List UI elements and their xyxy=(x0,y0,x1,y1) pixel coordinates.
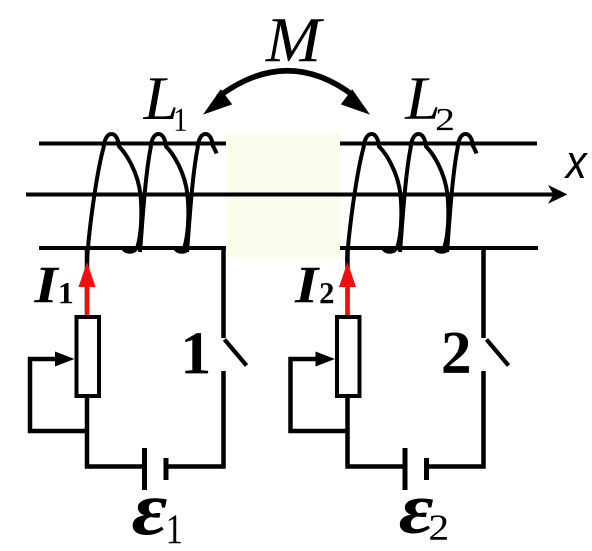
label EMF2 subscript 2 xyxy=(430,515,447,539)
mutual inductance left arrowhead xyxy=(203,89,232,114)
wire: battery 2 right lead xyxy=(429,464,486,469)
inductor L1 top bump 3 xyxy=(198,134,214,147)
inductor L2 top bump 1 xyxy=(364,134,380,147)
inductor L1 front stroke 2 xyxy=(140,146,151,252)
inductor L2 top bump 3 xyxy=(458,134,474,147)
label switch 2 xyxy=(443,333,468,373)
inductor L2 top bump 3 tail xyxy=(473,145,477,154)
mutual inductance arc xyxy=(218,71,354,97)
battery 2 long plate xyxy=(403,448,408,490)
x-axis line xyxy=(26,193,560,197)
label L2 subscript 2 xyxy=(437,109,453,130)
inductor L1 bottom bump 2 xyxy=(173,248,191,254)
label L1 letter L xyxy=(143,78,176,119)
rheostat R1 tap left wire xyxy=(30,357,87,431)
wire: rheostat R1 to battery xyxy=(85,396,90,469)
inductor L1 back stroke 2 xyxy=(166,146,189,250)
wire: battery 1 right lead xyxy=(169,464,226,469)
inductor L2 front stroke 1 xyxy=(347,146,364,261)
switch 1 blade xyxy=(225,340,247,366)
gap region between coils (pale yellow) xyxy=(226,133,340,258)
label I2 subscript 2 xyxy=(320,283,333,303)
inductor L2 bottom bump 1 xyxy=(381,248,399,254)
core rod top line xyxy=(39,142,537,146)
core rod bottom line xyxy=(39,246,538,250)
label I1 letter I xyxy=(34,268,59,303)
inductor L1 front stroke 1 xyxy=(87,146,104,261)
rheostat R1 wiper arrow shaft xyxy=(28,357,58,362)
rheostat R1 body xyxy=(77,317,100,396)
wire: switch 1 lower branch xyxy=(221,371,226,469)
wire: battery 2 left lead xyxy=(346,464,403,469)
label EMF1 epsilon xyxy=(133,498,167,535)
inductor L2 front stroke 2 xyxy=(400,146,411,252)
label x axis xyxy=(564,153,588,178)
wire: switch 1 upper branch xyxy=(221,246,226,338)
inductor L1 top bump 2 xyxy=(151,134,167,147)
wire: switch 2 lower branch xyxy=(481,371,486,469)
label I2 letter I xyxy=(294,268,319,303)
inductor L1 front stroke 3 xyxy=(187,146,198,252)
inductor L1 top bump 3 tail xyxy=(213,145,217,154)
label EMF2 epsilon xyxy=(400,499,433,534)
current arrow I1 (red) xyxy=(85,285,89,316)
rheostat R2 wiper arrow shaft xyxy=(289,357,319,362)
inductor L2 back stroke 2 xyxy=(426,146,449,250)
x-axis arrowhead xyxy=(548,185,568,204)
battery 1 long plate xyxy=(142,448,147,490)
wire: coil L2 bottom to rheostat xyxy=(345,248,350,318)
inductor L2 back stroke 1 xyxy=(379,146,402,250)
rheostat R2 body xyxy=(337,317,360,396)
label L1 subscript 1 xyxy=(176,109,186,131)
inductor L2 top bump 2 xyxy=(411,134,427,147)
switch 2 blade xyxy=(487,340,509,366)
label L2 letter L xyxy=(404,78,437,118)
label EMF1 subscript 1 xyxy=(169,515,181,543)
wire: rheostat R2 to battery xyxy=(345,396,350,469)
current arrow I2 (red) xyxy=(345,285,349,316)
inductor L2 front stroke 3 xyxy=(447,146,458,252)
rheostat R2 wiper arrowhead xyxy=(316,352,336,367)
wire: switch 2 upper branch xyxy=(481,246,486,338)
inductor L1 top bump 1 xyxy=(104,134,120,147)
rheostat R1 wiper arrowhead xyxy=(55,352,75,367)
label switch 1 xyxy=(185,333,208,373)
mutual inductance right arrowhead xyxy=(341,89,370,114)
label I1 subscript 1 xyxy=(60,283,72,303)
inductor L1 bottom bump 1 xyxy=(121,248,139,254)
label M (mutual inductance) xyxy=(265,19,324,61)
wire: battery 1 left lead xyxy=(85,464,142,469)
battery 2 short plate xyxy=(424,458,429,480)
inductor L2 bottom bump 2 xyxy=(433,248,451,254)
rheostat R2 tap left wire xyxy=(291,357,348,431)
inductor L1 back stroke 1 xyxy=(119,146,142,250)
wire: coil L1 bottom to rheostat xyxy=(85,248,90,318)
battery 1 short plate xyxy=(164,458,169,480)
